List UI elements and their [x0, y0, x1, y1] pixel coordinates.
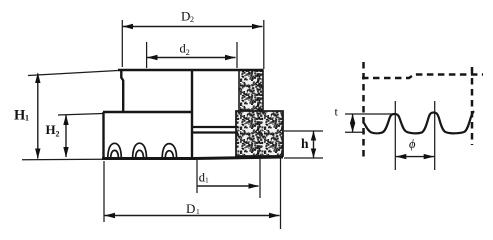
D1 left arrow	[105, 213, 116, 218]
svg-text:2: 2	[186, 48, 190, 57]
d1 left extension line	[196, 160, 198, 193]
central column vertical edge	[191, 70, 193, 158]
part bottom edge	[102, 157, 283, 159]
H1 top arrow	[35, 73, 40, 84]
H2 top extension line	[58, 114, 103, 116]
svg-text:D: D	[181, 9, 190, 24]
mid shelf edge	[103, 111, 192, 113]
t valley reference line	[345, 131, 365, 133]
D1 left extension line	[103, 161, 105, 222]
corrugation arch 3	[162, 144, 176, 159]
phi right arrow	[424, 154, 435, 159]
H1 top extension line	[28, 71, 118, 76]
stipple block upper (section cut, x239-263 y70-111)	[239, 70, 263, 111]
d2 right arrow	[225, 55, 236, 60]
dimension H1	[14, 71, 118, 160]
d1 right extension line	[259, 158, 261, 198]
h dimension line	[313, 132, 315, 158]
svg-text:1: 1	[205, 176, 209, 185]
d1 right arrow	[249, 183, 260, 188]
svg-text:2: 2	[190, 15, 194, 24]
H2 bottom arrow	[63, 147, 68, 158]
svg-text:2: 2	[56, 130, 60, 139]
t top arrow	[350, 114, 355, 124]
d2 left extension line	[146, 42, 148, 68]
clamped diaphragm sheet upper line	[192, 126, 238, 128]
phi left arrow	[396, 154, 407, 159]
stipple block lower (section cut, x236-283 y111-156)	[236, 111, 283, 156]
dimension h	[284, 131, 323, 158]
svg-text:ϕ: ϕ	[409, 137, 416, 151]
h bottom extension line	[284, 157, 323, 159]
D2 right extension line	[263, 20, 265, 69]
svg-text:1: 1	[25, 114, 29, 123]
corrugated diaphragm profile	[364, 111, 474, 133]
upper-left vertical edge	[121, 70, 123, 112]
svg-text:H: H	[46, 122, 56, 137]
dimension d2	[147, 42, 237, 69]
H2 top arrow	[63, 115, 68, 126]
crest centre line 1	[394, 101, 396, 170]
crest centre line 2	[434, 101, 436, 170]
D1 right extension line	[280, 157, 282, 229]
D2 dimension line	[123, 26, 263, 28]
clamped diaphragm sheet lower line	[192, 131, 238, 133]
dimension d1	[197, 158, 260, 198]
d1 dimension line	[197, 185, 259, 187]
H1 bottom extension line	[22, 158, 102, 161]
D1 dimension line	[105, 215, 280, 217]
dimension H2	[46, 114, 104, 158]
h top extension line	[284, 130, 323, 132]
corrugation arch 2	[133, 143, 147, 158]
corrugation arch 1	[108, 143, 122, 158]
D2 left arrow	[123, 24, 134, 29]
dimension D2	[122, 9, 263, 70]
H1 bottom arrow	[35, 149, 40, 160]
d2 dimension line	[147, 57, 236, 59]
lower box left vertical edge	[102, 112, 104, 158]
t dimension line	[352, 115, 354, 132]
d2 right extension line	[236, 42, 238, 68]
dimension phi (corrugation pitch)	[396, 137, 434, 159]
D2 right arrow	[252, 24, 263, 29]
dimension D1	[104, 157, 281, 229]
svg-text:h: h	[301, 136, 309, 151]
D1 right arrow	[269, 213, 280, 218]
dashed outline right vertical	[471, 67, 474, 145]
d2 left arrow	[147, 55, 158, 60]
h bottom arrow	[311, 149, 316, 159]
dimension t	[335, 105, 393, 133]
dashed outline top horizontal	[362, 75, 483, 79]
dashed outline left vertical	[362, 62, 365, 158]
svg-text:1: 1	[196, 207, 200, 216]
H2 dimension line	[65, 115, 67, 157]
svg-text:D: D	[186, 201, 195, 216]
h top arrow	[311, 131, 316, 141]
H1 dimension line	[37, 74, 39, 159]
svg-text:t: t	[335, 105, 339, 119]
part top edge	[118, 69, 263, 72]
t bottom arrow	[350, 123, 355, 133]
t crest reference line	[345, 113, 392, 115]
phi dimension line	[396, 156, 434, 158]
D2 left extension line	[121, 20, 123, 67]
